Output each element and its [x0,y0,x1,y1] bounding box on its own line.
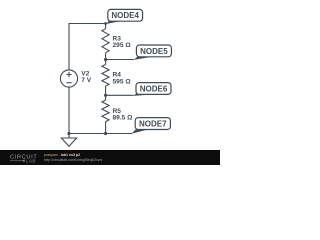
svg-text:NODE5: NODE5 [140,47,168,56]
footer bar [0,150,220,165]
voltage source V2 circle [60,70,77,87]
junction node R4/R5 [104,94,107,97]
junction node R3/R4 [104,58,107,61]
CircuitLab logo underline [10,160,22,162]
wire right rail R3 top lead [105,23,107,29]
svg-text:89.5 Ω: 89.5 Ω [113,115,134,122]
CircuitLab logo arrow [22,159,25,162]
wire R3 bottom lead [105,53,107,65]
resistor R5 [102,100,109,122]
NODE4 flag tail [106,21,120,24]
node flag NODE7 box [135,118,170,130]
resistor R3 [102,29,109,53]
node flag NODE5 box [136,45,171,57]
wire bottom horizontal [69,133,132,135]
svg-text:7 V: 7 V [81,77,91,84]
junction node bottom right [104,132,107,135]
V2 plus sign [66,72,71,77]
wire R4 bottom lead [105,86,107,100]
NODE6 flag tail [133,93,148,96]
wire left rail lower [68,87,70,133]
ground triangle [61,138,76,146]
svg-text:295 Ω: 295 Ω [113,42,132,49]
wire top horizontal [69,23,106,25]
wire left rail upper [68,23,70,70]
svg-text:http://circuitlab.com/c/xhg56m: http://circuitlab.com/c/xhg56mjk2cwv [44,158,103,162]
svg-text:NODE7: NODE7 [139,119,167,128]
ground stub [68,134,70,139]
node flag NODE6 box [136,83,171,95]
wire stub to NODE6 [106,94,134,96]
svg-text:NODE4: NODE4 [111,11,139,20]
V2 minus sign [66,82,71,84]
svg-text:prasyam : lab1 ex3 p2: prasyam : lab1 ex3 p2 [44,153,80,157]
junction node bottom left [67,132,70,135]
wire R5 bottom lead [105,122,107,134]
resistor R4 [102,65,109,87]
NODE5 flag tail [134,57,150,60]
node flag NODE4 box [108,9,143,21]
NODE7 flag tail [131,129,146,134]
wire stub to NODE5 [106,59,134,61]
svg-text:NODE6: NODE6 [140,84,168,93]
junction node top right [104,22,107,25]
svg-text:595 Ω: 595 Ω [113,78,132,85]
svg-text:LAB: LAB [26,159,36,164]
